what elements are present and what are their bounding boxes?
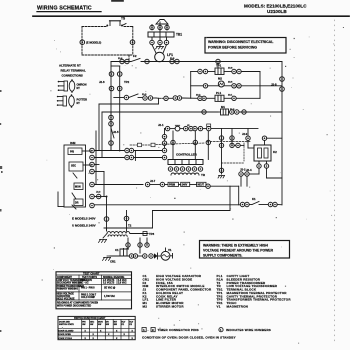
left stub verticals — [98, 104, 100, 151]
svg-text:STIRRER MOTOR: STIRRER MOTOR — [156, 304, 184, 308]
wire ISM row 204 — [94, 204, 240, 206]
right vertical bus — [281, 62, 283, 205]
svg-text:DR: DR — [75, 202, 79, 205]
dashed connector boundary horizontal — [222, 162, 245, 164]
node circle left of TS loop — [80, 40, 85, 45]
svg-text:21-3: 21-3 — [142, 94, 147, 96]
svg-text:TP3: TP3 — [149, 232, 155, 236]
title underline — [37, 11, 101, 13]
svg-text:M2: M2 — [218, 77, 222, 81]
wire y210 row — [153, 210, 231, 212]
svg-text:INDICATES WIRE NUMBERS: INDICATES WIRE NUMBERS — [226, 328, 271, 332]
svg-text:2.4 VOLTS: 2.4 VOLTS — [103, 279, 115, 282]
svg-text:SWITCH STATE: SWITCH STATE — [59, 323, 74, 326]
test chart table — [56, 272, 132, 309]
svg-text:K1: K1 — [252, 197, 256, 201]
svg-text:SUPPLY COMPONENTS.: SUPPLY COMPONENTS. — [203, 253, 242, 257]
J2-8 nodes on right bus — [280, 77, 285, 82]
switch TS — [106, 21, 126, 27]
svg-text:K2: K2 — [273, 150, 277, 154]
svg-text:40-8: 40-8 — [228, 66, 233, 69]
warning box 2 — [200, 241, 290, 259]
svg-text:RT: RT — [77, 102, 81, 105]
svg-text:POWER BEFORE SERVICING: POWER BEFORE SERVICING — [208, 46, 257, 50]
svg-text:DOOR OPEN: DOOR OPEN — [59, 334, 72, 336]
svg-text:MON: MON — [75, 186, 81, 189]
wire ISM row 184 — [94, 184, 143, 186]
paper noise — [42, 27, 344, 344]
left margin specks — [0, 90, 3, 332]
svg-text:E MODELS 240V: E MODELS 240V — [72, 216, 96, 220]
ground at terminal — [156, 45, 164, 49]
wire nodes on bus — [120, 59, 124, 63]
svg-text:AC - AC: AC - AC — [80, 282, 89, 285]
controller vertical with door switch — [110, 112, 112, 128]
svg-text:J2-2: J2-2 — [240, 168, 246, 172]
svg-text:CR1: CR1 — [110, 260, 116, 264]
wire ISM row 171 — [94, 171, 104, 173]
svg-text:40-2: 40-2 — [196, 93, 201, 96]
svg-text:PL1: PL1 — [216, 91, 222, 95]
svg-text:READINGS AT COMPONENTS TAKEN: READINGS AT COMPONENTS TAKEN — [57, 302, 98, 305]
svg-text:240V- 120V: 240V- 120V — [80, 279, 92, 282]
svg-text:40-6: 40-6 — [228, 81, 233, 84]
high voltage secondary wires — [127, 238, 129, 249]
title WIRING SCHEMATIC — [37, 6, 92, 12]
svg-text:40-1: 40-1 — [228, 93, 233, 96]
dashed connector outline near K2 — [207, 141, 250, 143]
J2 column x232 — [230, 129, 244, 148]
svg-text:U2100LB: U2100LB — [267, 9, 287, 14]
second vertical TP2 branch — [119, 66, 121, 151]
svg-text:SWITCH FUNCTION CHART: SWITCH FUNCTION CHART — [74, 317, 106, 320]
svg-text:RELAY TERMINAL: RELAY TERMINAL — [61, 69, 86, 73]
svg-text:LF1: LF1 — [167, 53, 173, 57]
power transformer T2 — [126, 211, 128, 229]
svg-text:U MODELS 240V: U MODELS 240V — [72, 223, 96, 227]
svg-text:PRIM: PRIM — [169, 184, 175, 187]
top edge smudge — [111, 0, 124, 2]
svg-text:HOLD VOLTAGE: HOLD VOLTAGE — [57, 298, 75, 301]
svg-text:PRI: PRI — [70, 151, 74, 154]
connector pin circles — [168, 167, 172, 171]
fuse F2 switch — [131, 59, 140, 62]
relay K2 cook relay — [254, 145, 277, 161]
svg-text:-: - — [148, 328, 149, 332]
svg-text:SE VAC @: SE VAC @ — [104, 287, 116, 290]
wire ISM row 196 — [94, 196, 104, 198]
T2 primary coil — [107, 232, 130, 234]
connector drop wires with J2 pin circles — [172, 131, 174, 160]
svg-text:3.2 VOLTS: 3.2 VOLTS — [103, 283, 115, 285]
svg-text:V1: V1 — [168, 248, 172, 252]
svg-text:NEUT: NEUT — [198, 184, 205, 187]
svg-text:TP1: TP1 — [216, 64, 222, 68]
K2 top wires — [247, 129, 249, 136]
svg-text:SW: SW — [90, 324, 93, 326]
branch row 1: TP1 magnetron thermal protector — [217, 62, 219, 69]
branch row 4: blower motor M1 — [218, 111, 221, 113]
K2 bottom wires — [257, 164, 261, 168]
T2 ground — [99, 234, 108, 243]
svg-text:TEST POINTS: TEST POINTS — [82, 277, 98, 279]
svg-text:WIRING SCHEMATIC: WIRING SCHEMATIC — [37, 6, 92, 12]
svg-text:SECONDARY WINDING: SECONDARY WINDING — [57, 282, 83, 285]
component legend right column — [217, 274, 292, 308]
wire ISM row 164 — [94, 164, 99, 166]
svg-text:C1: C1 — [115, 248, 119, 252]
svg-text:TIMER CONNECTOR PINS: TIMER CONNECTOR PINS — [158, 328, 199, 332]
alternate relay symbol 2 — [57, 94, 87, 108]
ground column near TR — [218, 129, 225, 178]
svg-text:PIN 1 - PIN 8: PIN 1 - PIN 8 — [81, 288, 95, 290]
HV ground — [103, 256, 111, 261]
svg-text:PRIMARY WINDING: PRIMARY WINDING — [57, 288, 79, 291]
wire ISM row 150 — [94, 150, 124, 152]
left drop to controller — [164, 129, 166, 135]
svg-text:WARNING: DISCONNECT ELECTRICA: WARNING: DISCONNECT ELECTRICAL — [208, 40, 274, 44]
svg-text:240V: 240V — [182, 184, 188, 187]
controller input row y128.6 — [164, 128, 167, 130]
svg-text:SW: SW — [98, 324, 101, 326]
terminal block TB1 — [148, 22, 174, 37]
component legend left column — [143, 274, 212, 308]
branch row 3: cavity light PL1 — [215, 95, 224, 101]
branch row 2: stirrer motor M2 — [191, 85, 203, 87]
svg-text:J2-1: J2-1 — [158, 123, 164, 127]
primary connector label boxes — [165, 184, 168, 186]
TP2 cavity thermal protector — [117, 72, 122, 77]
controller box — [176, 153, 198, 157]
svg-text:J2-6: J2-6 — [99, 80, 105, 84]
wire number box — [138, 143, 142, 147]
svg-text:WARNING: THERE IS EXTREMELY H: WARNING: THERE IS EXTREMELY HIGH — [203, 243, 268, 247]
svg-text:COLD COMP: COLD COMP — [81, 297, 96, 299]
high voltage capacitor C1 — [120, 249, 129, 256]
tiny wire number labels — [96, 58, 235, 194]
svg-text:J2-7: J2-7 — [150, 179, 156, 183]
E/U models 240V labels — [72, 216, 96, 227]
magnetron V1 — [161, 251, 170, 260]
thermal switch TS dashed circuit — [82, 27, 133, 61]
svg-text:ISM: ISM — [70, 141, 76, 145]
svg-text:M2: M2 — [143, 304, 148, 308]
node circle right of TS loop — [130, 40, 135, 45]
condition note — [142, 336, 236, 340]
interlock switch module ISM — [64, 141, 92, 209]
low voltage transformer TR coil — [171, 173, 199, 175]
svg-text:RT: RT — [77, 87, 81, 90]
svg-text:V1: V1 — [217, 304, 221, 308]
svg-text:T2: T2 — [128, 224, 132, 228]
main lower rail y204 continues — [240, 202, 244, 206]
svg-text:MODELS: E2100LB,E2100LC: MODELS: E2100LB,E2100LC — [244, 4, 307, 9]
svg-text:21-5: 21-5 — [170, 58, 175, 60]
svg-text:2.6 VAC: 2.6 VAC — [118, 282, 127, 285]
svg-text:SW: SW — [114, 324, 117, 326]
interlock switch row — [114, 97, 124, 99]
svg-text:NORMAL READING: NORMAL READING — [103, 276, 124, 279]
wire numbers note — [219, 328, 271, 332]
svg-text:J2-5: J2-5 — [113, 130, 119, 134]
svg-text:CONDITION OF OVEN: DOOR CLOSE: CONDITION OF OVEN: DOOR CLOSED, OVEN IN … — [142, 336, 236, 340]
svg-text:J2-8: J2-8 — [271, 83, 277, 87]
wire loop at ISM bottom left — [57, 192, 59, 207]
wire row y184.5 below controller — [145, 182, 149, 186]
svg-text:21-9: 21-9 — [230, 109, 235, 111]
svg-text:1.6 VAC: 1.6 VAC — [118, 279, 127, 282]
wire ISM row 157 — [94, 157, 124, 159]
svg-text:ALTERNATE RT: ALTERNATE RT — [59, 64, 81, 68]
ISM terminal circles — [90, 148, 95, 153]
transformer thermal protector TP3 — [130, 233, 148, 235]
svg-text:VOLTAGE PRESENT AROUND THE POW: VOLTAGE PRESENT AROUND THE POWER — [203, 248, 274, 252]
svg-text:COOK CYCLE: COOK CYCLE — [59, 338, 73, 340]
svg-text:TB1: TB1 — [176, 33, 182, 37]
controller connector strip — [168, 160, 203, 165]
svg-text:DOOR CLOSED: DOOR CLOSED — [59, 330, 74, 332]
left vertical drop from bus — [110, 62, 112, 151]
high voltage diode CR1 — [154, 253, 158, 259]
J2-2 nodes right of TR — [239, 172, 243, 176]
svg-text:1,700 VAC: 1,700 VAC — [104, 295, 115, 298]
alternate relay terminal text — [59, 64, 86, 78]
power cord plug symbol — [156, 20, 168, 25]
svg-text:F2: F2 — [133, 54, 137, 58]
timer connector note — [142, 328, 199, 333]
svg-text:SW: SW — [82, 324, 85, 326]
right margin perforation dots — [334, 20, 336, 342]
svg-text:(E MODELS): (E MODELS) — [86, 41, 101, 45]
alternate relay symbol 1 — [58, 79, 87, 93]
svg-text:SEC: SEC — [71, 165, 76, 168]
svg-text:COMPONENT: COMPONENT — [57, 277, 73, 279]
long rail y104 — [99, 103, 159, 105]
T2 primary top line — [104, 227, 153, 229]
long rail y112 blower feed — [102, 111, 218, 113]
terminal circles below TB1 — [150, 40, 154, 44]
interlock monitor switch — [249, 204, 252, 206]
wires from terminals into LF1 — [152, 45, 156, 53]
line filter LF1 — [155, 52, 165, 62]
header rule — [33, 15, 349, 17]
svg-text:CONNECTIONS: CONNECTIONS — [62, 74, 83, 78]
svg-text:CONTROLLER: CONTROLLER — [176, 153, 198, 157]
feed vertical to upper branch rows — [190, 72, 192, 99]
svg-text:M1: M1 — [221, 105, 225, 109]
HV row wire — [110, 255, 129, 257]
T2 secondary coil — [108, 235, 127, 237]
svg-text:21-6: 21-6 — [118, 58, 123, 60]
main bus wire L1 — [111, 61, 131, 63]
svg-text:TP2: TP2 — [124, 80, 130, 84]
svg-text:J2-3: J2-3 — [96, 191, 101, 193]
switch function chart table — [58, 316, 135, 340]
warning box 1 — [205, 38, 286, 54]
svg-text:J2-9: J2-9 — [242, 132, 248, 136]
svg-text:TEST CHART: TEST CHART — [83, 272, 100, 276]
svg-text:MAGNETRON: MAGNETRON — [227, 304, 248, 308]
svg-text:WITH POWER DISCONNECTED: WITH POWER DISCONNECTED — [57, 306, 92, 308]
svg-text:SW: SW — [106, 324, 109, 326]
svg-text:TS: TS — [121, 17, 125, 21]
J2-6 node circles — [109, 72, 114, 77]
models text — [244, 4, 307, 15]
